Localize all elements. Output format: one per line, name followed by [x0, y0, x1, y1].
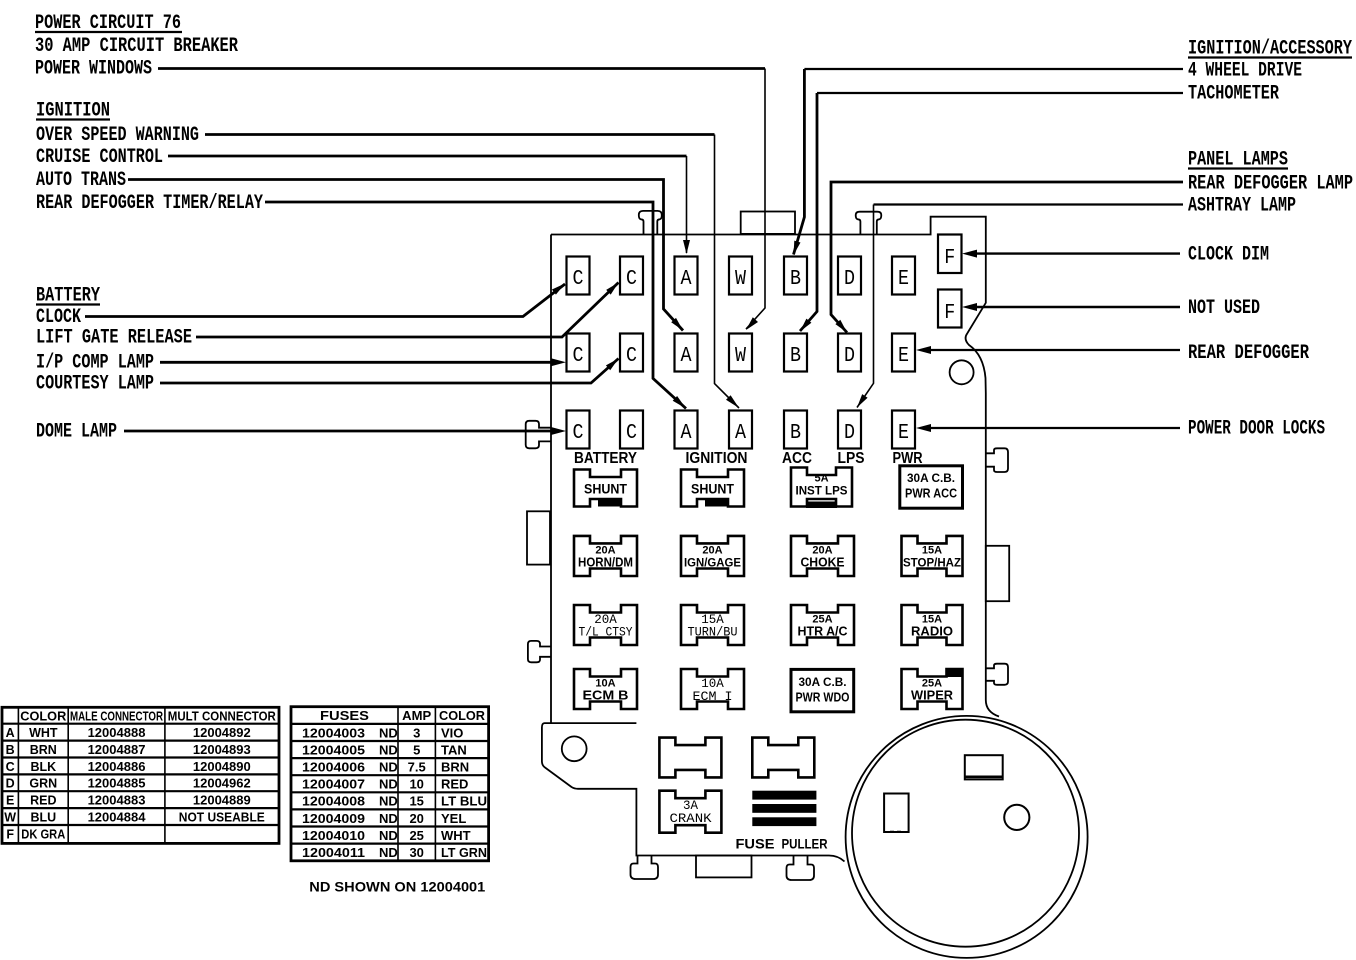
connector pin circle	[1004, 805, 1029, 830]
svg-text:POWER DOOR LOCKS: POWER DOOR LOCKS	[1188, 418, 1325, 441]
bottom foot 2 (rectangle)	[696, 856, 752, 878]
fuse 20A IGN/GAGE	[681, 536, 744, 576]
svg-text:30A C.B.: 30A C.B.	[907, 471, 955, 485]
svg-text:DK GRA: DK GRA	[21, 827, 65, 841]
svg-text:RED: RED	[30, 794, 56, 808]
svg-text:ND: ND	[379, 742, 398, 757]
fuse 15A RADIO	[902, 605, 963, 645]
svg-text:C: C	[6, 760, 15, 774]
svg-text:A: A	[681, 422, 692, 445]
svg-text:CRUISE CONTROL: CRUISE CONTROL	[36, 146, 163, 169]
terminal D row2 col6	[838, 334, 861, 372]
svg-text:RADIO: RADIO	[911, 625, 953, 639]
svg-text:B: B	[790, 268, 801, 291]
wire DOME LAMP to terminal C row3	[124, 430, 552, 433]
svg-text:A: A	[681, 268, 692, 291]
svg-text:C: C	[626, 345, 637, 368]
terminal C row3 col1	[567, 411, 590, 449]
svg-text:3A: 3A	[683, 799, 699, 813]
svg-text:12004962: 12004962	[193, 776, 251, 791]
terminal C row1 col1	[567, 257, 590, 295]
svg-text:5: 5	[413, 742, 420, 757]
wire ASHTRAY LAMP to terminal D row3	[874, 203, 1184, 205]
svg-text:30A C.B.: 30A C.B.	[799, 675, 847, 689]
terminal A row2 col3	[675, 334, 698, 372]
left mounting tab (rectangle)	[527, 511, 550, 564]
svg-text:30: 30	[409, 845, 423, 860]
fuse 10A ECM B	[574, 669, 637, 709]
terminal F1	[938, 235, 962, 274]
svg-text:D: D	[6, 777, 15, 791]
svg-text:F: F	[944, 302, 955, 325]
svg-text:GRN: GRN	[29, 777, 57, 791]
svg-text:W: W	[735, 268, 746, 291]
svg-text:F: F	[6, 827, 14, 841]
spare fuse slot 1	[659, 738, 721, 778]
svg-text:LIFT GATE RELEASE: LIFT GATE RELEASE	[36, 327, 192, 350]
fuse 5A INST LPS	[791, 468, 852, 507]
svg-text:A: A	[6, 726, 15, 740]
svg-text:ND: ND	[379, 777, 398, 792]
svg-text:12004885: 12004885	[88, 776, 146, 791]
svg-text:12004011: 12004011	[302, 845, 365, 860]
terminal A row3 col3	[675, 411, 698, 449]
svg-text:WHT: WHT	[441, 828, 471, 843]
svg-text:FUSES: FUSES	[320, 709, 369, 723]
svg-text:DOME LAMP: DOME LAMP	[36, 421, 117, 444]
terminal C row2 col1	[567, 334, 590, 372]
wire LIFT GATE RELEASE to terminal C row1 col2	[196, 283, 619, 338]
svg-text:HTR A/C: HTR A/C	[798, 625, 848, 639]
svg-text:12004009: 12004009	[302, 811, 365, 826]
svg-text:15: 15	[409, 794, 423, 809]
svg-text:ASHTRAY LAMP: ASHTRAY LAMP	[1188, 195, 1296, 218]
svg-text:ND: ND	[379, 725, 398, 740]
wire COURTESY LAMP to terminal C row2 col2	[160, 359, 619, 384]
svg-text:AMP: AMP	[402, 709, 431, 723]
svg-text:D: D	[844, 345, 855, 368]
svg-text:12004889: 12004889	[193, 793, 251, 808]
svg-text:BRN: BRN	[441, 760, 469, 775]
svg-text:SHUNT: SHUNT	[584, 481, 627, 497]
svg-text:INST LPS: INST LPS	[796, 484, 848, 498]
svg-text:ND: ND	[379, 845, 398, 860]
fuse block left edge and bottom-left ear	[542, 235, 845, 862]
svg-text:NOT USEABLE: NOT USEABLE	[179, 810, 265, 825]
svg-text:CRANK: CRANK	[670, 812, 713, 826]
terminal E row1 col7	[892, 257, 915, 295]
svg-text:ECM B: ECM B	[583, 689, 629, 703]
svg-text:12004003: 12004003	[302, 725, 365, 740]
round connector inner circle	[852, 720, 1079, 947]
right mounting tab B (rectangle)	[986, 546, 1009, 601]
svg-text:RED: RED	[441, 777, 468, 792]
svg-text:AUTO TRANS: AUTO TRANS	[36, 169, 126, 192]
svg-text:PWR ACC: PWR ACC	[905, 487, 957, 501]
svg-text:C: C	[573, 345, 584, 368]
fuse 3A CRANK	[659, 791, 721, 833]
fuse puller (black bars)	[752, 791, 816, 800]
svg-text:12004887: 12004887	[88, 742, 146, 757]
terminal D row1 col6	[838, 257, 861, 295]
svg-text:A: A	[681, 345, 692, 368]
wire OVER SPEED WARNING to terminal A row3	[205, 133, 715, 136]
wire I/P COMP LAMP to terminal C row2	[160, 361, 552, 364]
svg-text:WIPER: WIPER	[911, 689, 953, 703]
wire CRUISE CONTROL to terminal A row1	[168, 155, 687, 158]
svg-text:MULT CONNECTOR: MULT CONNECTOR	[168, 710, 276, 724]
svg-text:PULLER: PULLER	[782, 836, 828, 852]
terminal F2	[938, 290, 962, 328]
svg-text:B: B	[790, 422, 801, 445]
left mounting tab (bolt, lower)	[528, 641, 551, 662]
svg-text:C: C	[626, 422, 637, 445]
svg-text:IGNITION: IGNITION	[686, 450, 748, 467]
svg-text:FUSE: FUSE	[736, 836, 775, 852]
fuse part-number table	[291, 707, 489, 861]
svg-text:CHOKE: CHOKE	[801, 556, 845, 570]
top mounting tab 2	[856, 212, 882, 235]
svg-text:ND: ND	[379, 760, 398, 775]
svg-text:25: 25	[409, 828, 423, 843]
svg-text:12004884: 12004884	[88, 810, 147, 825]
wire CLOCK DIM to terminal F1	[975, 252, 1180, 254]
terminal W row2 col4	[729, 334, 752, 372]
bottom foot 1 (bolt)	[631, 856, 659, 880]
wire AUTO TRANS to terminal A row2	[128, 180, 683, 331]
top mounting tab 1	[639, 211, 662, 235]
svg-text:12004893: 12004893	[193, 742, 251, 757]
terminal W row1 col4	[729, 257, 752, 295]
wire REAR DEFOGGER LAMP to terminal D row2	[831, 182, 1183, 333]
fuse 25A WIPER	[902, 669, 963, 709]
fuse 25A HTR A/C	[791, 605, 854, 645]
svg-text:D: D	[844, 268, 855, 291]
terminal B row1 col5	[784, 257, 807, 295]
svg-text:F: F	[944, 247, 955, 270]
fuse 15A TURN/BU	[681, 605, 744, 645]
svg-text:12004008: 12004008	[302, 794, 365, 809]
wire TACHOMETER to terminal B row2	[817, 92, 1183, 94]
svg-text:ND SHOWN ON 12004001: ND SHOWN ON 12004001	[309, 880, 486, 895]
svg-text:C: C	[573, 268, 584, 291]
svg-text:BATTERY: BATTERY	[574, 450, 638, 467]
ear mounting hole	[562, 736, 587, 761]
fuse 20A T/L CTSY	[574, 605, 637, 645]
svg-text:LT BLU: LT BLU	[441, 794, 487, 809]
svg-text:I/P COMP LAMP: I/P COMP LAMP	[36, 352, 154, 375]
svg-text:12004006: 12004006	[302, 760, 365, 775]
fuse block outline	[551, 217, 999, 717]
svg-text:OVER SPEED WARNING: OVER SPEED WARNING	[36, 124, 199, 147]
svg-text:20: 20	[409, 811, 423, 826]
svg-text:WHT: WHT	[29, 726, 58, 740]
svg-text:ND: ND	[379, 794, 398, 809]
svg-text:W: W	[4, 811, 16, 825]
wire 4 WHEEL DRIVE to terminal B row1	[804, 68, 1183, 70]
svg-text:B: B	[790, 345, 801, 368]
terminal C row1 col2	[620, 257, 643, 295]
svg-text:7.5: 7.5	[408, 760, 426, 775]
svg-text:C: C	[573, 422, 584, 445]
right mounting tab A (bolt)	[986, 448, 1008, 472]
svg-text:ECM I: ECM I	[693, 690, 733, 704]
svg-text:REAR DEFOGGER TIMER/RELAY: REAR DEFOGGER TIMER/RELAY	[36, 192, 263, 215]
svg-text:E: E	[898, 422, 909, 445]
wire CLOCK to terminal C row1	[85, 284, 565, 317]
svg-text:REAR DEFOGGER LAMP: REAR DEFOGGER LAMP	[1188, 173, 1353, 196]
fuse SHUNT (ignition)	[681, 470, 744, 507]
connector color table	[2, 707, 279, 843]
round connector outer circle	[846, 716, 1088, 958]
fuse SHUNT (battery)	[574, 470, 637, 507]
terminal C row2 col2	[620, 334, 643, 372]
svg-text:LPS: LPS	[838, 450, 865, 467]
svg-text:12004892: 12004892	[193, 725, 251, 740]
svg-text:YEL: YEL	[441, 811, 466, 826]
svg-text:HORN/DM: HORN/DM	[578, 556, 633, 570]
connector key rectangle (left)	[884, 794, 909, 833]
terminal E row3 col7	[892, 411, 915, 449]
terminal A row1 col3	[675, 257, 698, 295]
svg-text:NOT USED: NOT USED	[1188, 297, 1260, 320]
terminal B row2 col5	[784, 334, 807, 372]
svg-text:PWR WDO: PWR WDO	[796, 691, 850, 705]
svg-text:12004888: 12004888	[88, 725, 146, 740]
svg-text:COLOR: COLOR	[439, 709, 485, 723]
top edge rectangle bump	[741, 212, 795, 234]
terminal D row3 col6	[838, 411, 861, 449]
svg-text:30 AMP CIRCUIT BREAKER: 30 AMP CIRCUIT BREAKER	[35, 35, 238, 58]
spare fuse slot 2	[752, 738, 814, 778]
svg-text:E: E	[6, 794, 14, 808]
fuse 20A CHOKE	[791, 536, 854, 576]
wire NOT USED to terminal F2	[975, 306, 1180, 308]
svg-text:ND: ND	[379, 811, 398, 826]
svg-text:STOP/HAZ: STOP/HAZ	[903, 556, 961, 570]
right mounting tab C (bolt)	[986, 664, 1008, 685]
svg-text:VIO: VIO	[441, 725, 463, 740]
svg-text:3: 3	[413, 725, 420, 740]
svg-text:COURTESY LAMP: COURTESY LAMP	[36, 373, 154, 396]
svg-text:12004005: 12004005	[302, 742, 365, 757]
svg-text:C: C	[626, 268, 637, 291]
svg-text:BLK: BLK	[30, 760, 56, 774]
wire REAR DEFOGGER to terminal E row2	[929, 349, 1180, 351]
svg-text:4 WHEEL DRIVE: 4 WHEEL DRIVE	[1188, 60, 1302, 83]
svg-text:CLOCK DIM: CLOCK DIM	[1188, 244, 1269, 267]
svg-text:E: E	[898, 345, 909, 368]
svg-text:POWER WINDOWS: POWER WINDOWS	[35, 58, 152, 81]
svg-text:BLU: BLU	[30, 811, 56, 825]
svg-text:TACHOMETER: TACHOMETER	[1188, 83, 1279, 106]
terminal B row3 col5	[784, 411, 807, 449]
svg-text:12004007: 12004007	[302, 777, 365, 792]
notch hole circle on right edge	[950, 360, 974, 384]
svg-text:REAR DEFOGGER: REAR DEFOGGER	[1188, 342, 1309, 365]
svg-text:MALE CONNECTOR: MALE CONNECTOR	[70, 710, 163, 724]
wire POWER WINDOWS to terminal W row2	[158, 67, 765, 70]
connector key rectangle (top)	[965, 755, 1003, 779]
fuse 20A HORN/DM	[574, 536, 637, 576]
left mounting tab (bolt, at dome lamp wire)	[526, 421, 551, 449]
svg-text:COLOR: COLOR	[20, 710, 66, 724]
svg-text:10A: 10A	[701, 677, 724, 691]
svg-text:12004883: 12004883	[88, 793, 146, 808]
svg-text:LT GRN: LT GRN	[441, 845, 487, 860]
svg-text:ACC: ACC	[782, 450, 812, 467]
svg-text:E: E	[898, 268, 909, 291]
bottom foot 3 (bolt)	[787, 856, 815, 881]
svg-text:ND: ND	[379, 828, 398, 843]
svg-text:TAN: TAN	[441, 742, 467, 757]
svg-text:T/L CTSY: T/L CTSY	[579, 626, 633, 640]
svg-text:12004010: 12004010	[302, 828, 365, 843]
svg-text:W: W	[735, 345, 746, 368]
terminal E row2 col7	[892, 334, 915, 372]
terminal C row3 col2	[620, 411, 643, 449]
svg-text:BRN: BRN	[30, 743, 57, 757]
svg-text:12004886: 12004886	[88, 759, 146, 774]
svg-text:IGN/GAGE: IGN/GAGE	[684, 556, 741, 570]
svg-text:TURN/BU: TURN/BU	[688, 626, 738, 640]
circuit breaker 30A C.B. PWR WDO	[791, 669, 854, 711]
circuit breaker 30A C.B. PWR ACC	[900, 466, 963, 508]
fuse 15A STOP/HAZ	[902, 536, 963, 576]
terminal A row3 col4	[729, 411, 752, 449]
fuse 10A ECM I	[681, 669, 744, 709]
svg-text:B: B	[6, 743, 15, 757]
svg-text:A: A	[735, 422, 746, 445]
wire POWER DOOR LOCKS to terminal E row3	[929, 427, 1180, 429]
svg-text:SHUNT: SHUNT	[691, 481, 734, 497]
svg-text:12004890: 12004890	[193, 759, 251, 774]
svg-text:D: D	[844, 422, 855, 445]
svg-text:10: 10	[409, 777, 423, 792]
wire REAR DEFOGGER TIMER/RELAY to terminal A row3 col3	[265, 202, 686, 409]
